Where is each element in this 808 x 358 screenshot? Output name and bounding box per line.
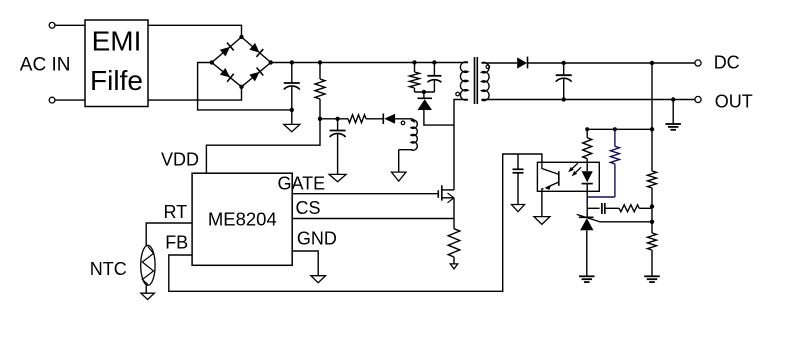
wire (651, 208, 653, 222)
resistor R7 (divider upper) (648, 129, 657, 207)
wire TL431 ref (599, 221, 652, 223)
node (290, 60, 294, 64)
diode D5 (VDD rectifier) (383, 114, 395, 125)
node (422, 90, 426, 94)
node (650, 127, 654, 131)
wire (414, 63, 416, 73)
svg-text:AC IN: AC IN (20, 55, 71, 76)
svg-text:VDD: VDD (161, 150, 199, 170)
ground (391, 172, 406, 181)
node (650, 61, 654, 65)
resistor R3 (snubber) (410, 72, 420, 88)
ground earth (divider) (644, 276, 660, 282)
wire (145, 285, 147, 293)
resistor R6 (opto parallel) (610, 129, 619, 164)
AC input terminal (neutral) (49, 97, 55, 103)
OUT output terminal (695, 96, 701, 102)
node (650, 204, 654, 208)
wire (587, 164, 615, 197)
wire (453, 219, 455, 229)
ground (512, 205, 525, 212)
wire (454, 100, 468, 190)
wire divider feed (651, 63, 653, 129)
wire (148, 87, 242, 100)
diode D7 (output rectifier) (517, 57, 527, 69)
shunt regulator U3 (TL431) (577, 214, 599, 230)
wire GATE net (292, 193, 438, 195)
wire (198, 63, 292, 110)
wire HV rail (271, 62, 468, 64)
wire RT net (146, 223, 192, 245)
wire (366, 118, 383, 120)
optocoupler U2 phototransistor (542, 162, 559, 191)
label GND (297, 229, 337, 249)
node (671, 97, 675, 101)
svg-text:RT: RT (164, 202, 188, 222)
capacitor C6 (compensation) (602, 203, 605, 214)
label AC IN (20, 55, 71, 76)
wire VDD net (206, 119, 320, 173)
capacitor C1 (bulk) (284, 63, 300, 110)
wire (453, 257, 455, 264)
node (562, 97, 566, 101)
wire (672, 100, 674, 125)
wire (586, 159, 588, 163)
wire (415, 91, 435, 93)
transformer T1 core (475, 57, 478, 104)
node (585, 127, 589, 131)
optocoupler U2 body (537, 162, 599, 191)
capacitor C5 (FB filter) (513, 154, 524, 205)
svg-text:FB: FB (165, 233, 188, 253)
bridge diode D3 (219, 67, 233, 81)
wire (586, 129, 588, 137)
resistor R4 (current sense) (448, 229, 460, 257)
label RT (164, 202, 188, 222)
node (613, 127, 617, 131)
ground earth (secondary) (665, 124, 681, 130)
resistor R9 (compensation) (619, 205, 639, 212)
transformer T1 secondary winding (482, 62, 490, 100)
bridge diode D1 (219, 43, 233, 57)
ground (534, 217, 550, 225)
svg-text:DC: DC (714, 52, 740, 72)
resistor R2 (VDD series) (348, 115, 366, 123)
EMI filter block (85, 20, 148, 107)
wire (319, 63, 321, 80)
wire (423, 92, 425, 98)
bridge diode D2 (249, 42, 263, 56)
label OUT (715, 91, 753, 111)
ground (311, 276, 326, 283)
node (412, 60, 416, 64)
svg-text:EMI: EMI (92, 26, 142, 57)
inductor L1 (aux winding) (395, 119, 417, 150)
ground (329, 174, 346, 181)
wire (639, 207, 652, 209)
wire (414, 88, 416, 92)
wire FB net (169, 154, 542, 291)
node bridge bottom (239, 85, 243, 89)
label FB (165, 233, 188, 253)
svg-text:ME8204: ME8204 (208, 209, 277, 230)
wire CS net (292, 218, 454, 220)
wire (55, 24, 85, 26)
diode D6 (snubber clamp) (418, 98, 433, 110)
wire (605, 207, 619, 209)
ground (284, 124, 300, 131)
wire (541, 191, 543, 216)
wire (398, 150, 400, 172)
AC input terminal (line) (49, 22, 55, 28)
resistor R1 (startup) (315, 79, 325, 99)
ground (141, 293, 155, 299)
ground earth (TL431) (579, 276, 595, 282)
DC output terminal (695, 60, 701, 66)
wire (587, 128, 652, 130)
wire (292, 251, 318, 276)
transformer T1 primary winding (460, 62, 468, 100)
node aux phase dot (401, 121, 405, 125)
wire (482, 62, 518, 64)
optocoupler U2 LED (582, 162, 593, 191)
node (335, 117, 339, 121)
node primary phase dot (456, 92, 460, 96)
node (318, 60, 322, 64)
ground (450, 264, 458, 269)
resistor R5 (LED bias) (583, 138, 592, 159)
op-amp U1 ME8204 controller (192, 173, 292, 265)
resistor R8 (divider lower) (648, 222, 657, 276)
capacitor C4 (output) (556, 63, 572, 100)
node (432, 60, 436, 64)
capacitor C2 (VDD) (330, 119, 346, 175)
node bridge left (210, 60, 214, 64)
node (562, 61, 566, 65)
node bridge top (239, 35, 243, 39)
label CS (296, 198, 321, 218)
wire (424, 110, 454, 125)
wire (55, 99, 85, 101)
wire (586, 230, 588, 276)
wire (587, 207, 599, 209)
optocoupler light arrows (568, 163, 581, 176)
node secondary phase dot (486, 65, 490, 69)
wire OUT return rail (482, 99, 695, 101)
wire (528, 62, 695, 64)
wire (291, 110, 293, 125)
label GATE (278, 174, 326, 194)
svg-text:CS: CS (296, 198, 321, 218)
wire bridge diamond edges (212, 37, 271, 87)
svg-text:GATE: GATE (278, 174, 326, 194)
wire (320, 118, 348, 120)
wire (148, 25, 242, 37)
svg-text:GND: GND (297, 229, 337, 249)
bridge diode D4 (249, 68, 263, 82)
node (650, 220, 654, 224)
label VDD (161, 150, 199, 170)
node (318, 117, 322, 121)
svg-text:NTC: NTC (90, 259, 127, 279)
wire (453, 198, 455, 219)
wire (586, 191, 588, 217)
capacitor C3 (snubber) (427, 63, 441, 93)
label NTC (90, 259, 127, 279)
wire (319, 99, 321, 119)
label DC (714, 52, 740, 72)
svg-text:Filfe: Filfe (90, 65, 143, 96)
thermistor NTC (141, 245, 155, 285)
transistor Q1 (MOSFET) (438, 185, 454, 203)
node (290, 108, 294, 112)
svg-text:OUT: OUT (715, 91, 753, 111)
node bridge right (269, 60, 273, 64)
